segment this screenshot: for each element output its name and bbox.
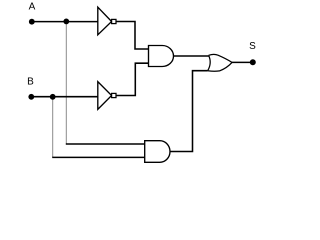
or gate OR1	[208, 54, 232, 71]
wire A junction down (vertical)	[65, 22, 67, 144]
inverter NOT1	[98, 7, 116, 35]
wire AND1 output to OR1 top input	[174, 55, 209, 57]
junction dot on A wire	[63, 19, 69, 25]
terminal dot A	[29, 19, 35, 25]
svg-text:A: A	[29, 2, 36, 13]
wire to AND2 top input (horizontal)	[66, 143, 145, 145]
inverter NOT2	[98, 82, 116, 110]
wire NOT2 output to AND1 bottom input	[116, 63, 149, 95]
terminal dot B	[28, 94, 34, 100]
wire to AND2 bottom input (horizontal)	[52, 156, 145, 158]
and gate AND1	[149, 46, 174, 67]
wire OR1 output to S	[232, 61, 251, 63]
svg-text:S: S	[249, 41, 256, 52]
junction dot on B wire	[50, 94, 56, 100]
wire B junction down (vertical)	[52, 97, 54, 157]
wire NOT1 output to AND1 top input	[116, 22, 149, 50]
terminal dot S	[250, 59, 256, 65]
wire A to NOT1 input	[32, 21, 98, 23]
wire B to NOT2 input	[31, 96, 98, 98]
wire AND2 output to OR1 bottom input	[170, 71, 208, 152]
and gate AND2	[145, 141, 170, 163]
svg-text:B: B	[27, 77, 34, 88]
